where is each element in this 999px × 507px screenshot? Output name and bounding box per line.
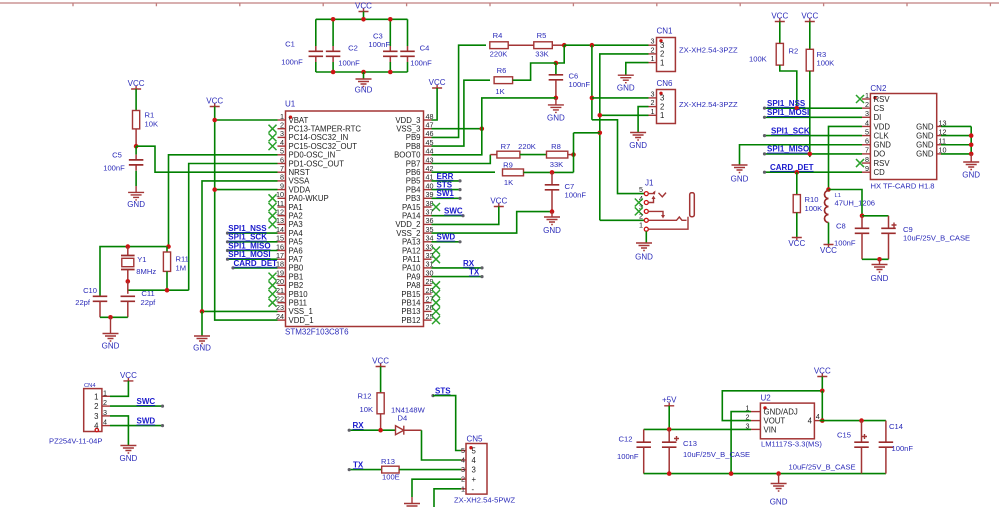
- svg-text:CN1: CN1: [657, 27, 674, 36]
- connector CN5: [454, 435, 516, 505]
- U1 pin 32 PA11: [403, 251, 440, 264]
- wire crystal gnd rail: [100, 315, 128, 320]
- svg-text:33K: 33K: [535, 50, 549, 59]
- svg-text:1: 1: [461, 484, 465, 493]
- wire VSS_2 to C7 ground node: [432, 212, 553, 234]
- J1 pin 5: [639, 185, 648, 196]
- svg-text:VDD_1: VDD_1: [289, 316, 314, 325]
- capacitor C3: [368, 19, 397, 72]
- svg-text:Y1: Y1: [137, 255, 146, 264]
- svg-text:PB3: PB3: [406, 194, 421, 203]
- svg-text:VIN: VIN: [764, 425, 777, 434]
- svg-text:SPI1_MOSI: SPI1_MOSI: [767, 108, 809, 117]
- svg-text:10uF/25V_B_CASE: 10uF/25V_B_CASE: [683, 450, 750, 459]
- svg-text:DO: DO: [874, 150, 886, 159]
- svg-text:RSV: RSV: [874, 159, 891, 168]
- svg-text:C12: C12: [619, 435, 633, 444]
- svg-text:21: 21: [276, 286, 284, 295]
- wire PB9 to R4: [432, 45, 487, 137]
- power net +5V: [662, 396, 677, 432]
- resistor R12: [358, 392, 385, 431]
- svg-text:C4: C4: [420, 44, 430, 53]
- svg-text:PA1: PA1: [289, 203, 303, 212]
- U1 pin 4 PC15-OSC32_OUT: [269, 138, 358, 151]
- svg-text:CARD_DET: CARD_DET: [770, 163, 814, 172]
- svg-text:PB10: PB10: [289, 290, 309, 299]
- svg-text:U1: U1: [285, 100, 296, 109]
- svg-text:SWC: SWC: [137, 397, 156, 406]
- svg-text:VCC: VCC: [206, 97, 223, 106]
- power net VCC (R12): [372, 357, 389, 393]
- node C7 bottom: [550, 209, 555, 214]
- U1 pin 47 VSS_3: [396, 121, 433, 134]
- svg-text:VCC: VCC: [429, 78, 446, 87]
- svg-text:3: 3: [651, 37, 655, 46]
- wire net SPI1_NSS: [763, 99, 862, 111]
- U1 pin 17 PA7: [276, 251, 303, 264]
- svg-text:GND/ADJ: GND/ADJ: [764, 408, 798, 417]
- wire net SPI1_MISO (U1 pin 16): [226, 241, 278, 252]
- svg-text:PA13: PA13: [402, 238, 421, 247]
- svg-text:PB14: PB14: [401, 299, 421, 308]
- svg-text:CN6: CN6: [657, 79, 674, 88]
- ground GND (J1): [635, 231, 653, 261]
- svg-text:C10: C10: [83, 286, 97, 295]
- CN2 pin 3 DI: [862, 109, 881, 122]
- node R5/C6/CN1: [554, 43, 567, 65]
- svg-text:SPI1_NSS: SPI1_NSS: [767, 99, 806, 108]
- wire CN1 pin1 to gnd: [626, 63, 649, 76]
- U1 pin 18 PB0: [276, 260, 304, 273]
- power net VCC (VDD_2): [432, 197, 508, 225]
- svg-text:100nF: 100nF: [338, 59, 360, 68]
- CN4 pin 2: [94, 398, 110, 411]
- op-amp CN2 (TF card socket body): [870, 84, 936, 191]
- resistor R1: [133, 111, 159, 147]
- CN2 pin 11 GND: [916, 137, 971, 150]
- CN5 pin 5: [461, 446, 477, 456]
- svg-text:4: 4: [103, 418, 107, 427]
- capacitor C8: [834, 216, 869, 259]
- resistor R13: [381, 457, 461, 482]
- wire crystal top rail: [100, 244, 171, 296]
- svg-text:VCC: VCC: [355, 2, 372, 11]
- svg-text:1: 1: [94, 392, 98, 401]
- power net VCC (CN4): [110, 371, 137, 396]
- resistor R8: [547, 142, 574, 169]
- svg-text:13: 13: [276, 216, 284, 225]
- wire net to J1.2: [600, 219, 645, 221]
- U1 pin 46 PB9: [406, 129, 434, 142]
- svg-text:1M: 1M: [176, 264, 187, 273]
- U1 pin 13 PA3: [269, 216, 303, 229]
- resistor R11: [163, 247, 188, 291]
- svg-text:VDD_3: VDD_3: [395, 116, 420, 125]
- svg-text:3: 3: [103, 408, 107, 417]
- wire OSC_IN to crystal: [169, 155, 278, 247]
- svg-text:R7: R7: [501, 142, 511, 151]
- U2 pin 3 VIN: [746, 421, 777, 434]
- svg-text:GND: GND: [127, 200, 145, 209]
- svg-text:VSS_3: VSS_3: [396, 125, 420, 134]
- CN2 pin 2 CS: [862, 100, 884, 113]
- svg-text:4: 4: [94, 422, 99, 431]
- wire net STS (U1 pin 40): [432, 181, 462, 192]
- ground GND (CN1): [617, 75, 635, 92]
- svg-text:20: 20: [276, 277, 284, 286]
- svg-text:GND: GND: [543, 226, 561, 235]
- svg-text:PZ254V-11-04P: PZ254V-11-04P: [49, 437, 102, 446]
- svg-text:1K: 1K: [504, 178, 513, 187]
- svg-text:J1: J1: [645, 178, 654, 187]
- wire C6 to VSS_3: [482, 98, 556, 129]
- svg-text:3: 3: [865, 109, 869, 118]
- wire net CARD_DET (U1 pin 18): [231, 259, 277, 270]
- svg-text:4: 4: [461, 456, 465, 465]
- node Y1/C11: [126, 279, 131, 284]
- svg-text:R13: R13: [381, 457, 395, 466]
- wire net SPI1_MISO: [763, 145, 862, 157]
- wire crystal bottom rail: [128, 288, 189, 293]
- svg-text:VSSA: VSSA: [289, 177, 311, 186]
- U1 pin 37 PA14: [402, 208, 434, 221]
- svg-text:1: 1: [651, 107, 655, 116]
- U1 pin 48 VDD_3: [395, 112, 433, 125]
- svg-text:220K: 220K: [490, 50, 508, 59]
- svg-text:2: 2: [660, 102, 664, 111]
- resistor R5: [534, 31, 564, 58]
- capacitor C5: [103, 146, 143, 186]
- wire OSC_OUT to crystal: [189, 164, 278, 291]
- svg-text:100nF: 100nF: [410, 59, 432, 68]
- svg-text:PB1: PB1: [289, 272, 304, 281]
- svg-text:2: 2: [651, 45, 655, 54]
- svg-text:5: 5: [472, 447, 477, 456]
- CN2 pin 5 CLK: [862, 127, 889, 140]
- svg-text:PA14: PA14: [402, 212, 421, 221]
- ground GND (C8/C9): [871, 259, 889, 283]
- svg-text:PC14-OSC32_IN: PC14-OSC32_IN: [289, 133, 349, 142]
- wire C8/C9 gnd rail: [862, 257, 889, 262]
- U1 pin 3 PC14-OSC32_IN: [269, 129, 349, 142]
- svg-text:PA0-WKUP: PA0-WKUP: [289, 194, 329, 203]
- op-amp U1 (MCU STM32F103C8T6 body): [285, 100, 424, 337]
- wire NRST net: [136, 146, 277, 172]
- wire net SWD (CN4): [110, 417, 164, 428]
- svg-text:R4: R4: [493, 31, 503, 40]
- U1 pin 25 PB12: [401, 312, 440, 325]
- U1 pin 38 PA15: [402, 199, 440, 212]
- svg-text:2: 2: [280, 121, 284, 130]
- CN5 pin 3: [461, 465, 476, 475]
- resistor R7: [490, 142, 536, 158]
- capacitor C4: [400, 19, 432, 72]
- svg-text:SPI1_SCK: SPI1_SCK: [228, 233, 267, 242]
- svg-text:U2: U2: [761, 394, 772, 403]
- U1 pin 7 NRST: [278, 164, 310, 177]
- resistor R2: [749, 43, 798, 65]
- wire PB7 to R7: [432, 155, 491, 164]
- U1 pin 22 PB11: [269, 295, 308, 308]
- U2 pin 4: [808, 412, 820, 426]
- svg-text:HX TF-CARD H1.8: HX TF-CARD H1.8: [871, 182, 935, 191]
- svg-text:1: 1: [865, 91, 869, 100]
- svg-text:VDDA: VDDA: [289, 185, 311, 194]
- U1 pin 11 PA1: [269, 199, 303, 212]
- capacitor C7: [545, 172, 587, 211]
- crystal Y1: [121, 247, 156, 282]
- wire R6 to C6 node: [513, 63, 556, 80]
- svg-text:RX: RX: [463, 259, 475, 268]
- wire net SPI1_MOSI: [763, 108, 862, 119]
- svg-text:R10: R10: [805, 195, 819, 204]
- J1 jack contacts: [648, 191, 694, 230]
- svg-text:+: +: [472, 475, 477, 484]
- svg-text:12: 12: [276, 208, 284, 217]
- svg-text:GND: GND: [193, 344, 211, 353]
- svg-text:7: 7: [280, 164, 284, 173]
- svg-text:100K: 100K: [749, 55, 767, 64]
- CN2 pin 12 GND: [916, 127, 971, 140]
- svg-text:100E: 100E: [382, 473, 400, 482]
- svg-text:5: 5: [461, 446, 465, 455]
- svg-text:PA5: PA5: [289, 238, 304, 247]
- power net VCC (U2): [814, 367, 831, 391]
- wire VOUT to VCC: [722, 389, 886, 423]
- capacitor C2: [326, 19, 360, 72]
- svg-text:3: 3: [280, 129, 284, 138]
- svg-text:VCC: VCC: [372, 357, 389, 366]
- svg-text:PA7: PA7: [289, 255, 303, 264]
- CN4 pin 4: [94, 418, 110, 431]
- wire net TX (bottom): [348, 460, 382, 471]
- svg-text:R1: R1: [145, 111, 155, 120]
- svg-text:R11: R11: [176, 255, 189, 264]
- U1 pin 19 PB1: [269, 268, 304, 281]
- svg-text:SPI1_SCK: SPI1_SCK: [771, 126, 810, 135]
- wire R4-R5: [508, 44, 534, 46]
- wire CN6 pin1 node: [598, 113, 649, 118]
- svg-text:10: 10: [276, 190, 284, 199]
- svg-text:GND: GND: [916, 141, 934, 150]
- wire net SW1 (U1 pin 39): [432, 189, 462, 200]
- svg-text:DI: DI: [874, 113, 882, 122]
- svg-text:33K: 33K: [550, 160, 564, 169]
- capacitor C15 (polarized): [789, 421, 869, 474]
- svg-text:SWC: SWC: [444, 207, 463, 216]
- svg-text:220K: 220K: [518, 142, 536, 151]
- U1 pin 35 VSS_2: [396, 225, 433, 238]
- svg-text:PB12: PB12: [401, 316, 420, 325]
- resistor R3: [806, 49, 834, 71]
- CN6 pin 1: [649, 107, 665, 120]
- J1 pin 4: [635, 194, 649, 207]
- U1 pin 12 PA2: [269, 208, 303, 221]
- svg-text:STS: STS: [437, 181, 453, 190]
- ground GND (U2 rail): [770, 474, 788, 507]
- svg-text:GND: GND: [770, 498, 788, 507]
- wire GND/ADJ down: [731, 412, 751, 474]
- capacitor C1: [281, 19, 323, 72]
- svg-text:100nF: 100nF: [368, 40, 390, 49]
- wire D4 to CN5 pin4: [422, 430, 462, 460]
- svg-text:+5V: +5V: [662, 396, 677, 405]
- svg-text:9: 9: [865, 164, 869, 173]
- svg-text:PB0: PB0: [289, 264, 304, 273]
- U1 pin 1 VBAT: [278, 112, 309, 125]
- svg-text:VDD_2: VDD_2: [395, 220, 420, 229]
- svg-text:2: 2: [94, 402, 98, 411]
- svg-text:STS: STS: [435, 386, 451, 395]
- U1 pin 26 PB13: [401, 303, 440, 316]
- wire VBAT/VDDA/VDD_1 vertical: [212, 118, 277, 320]
- svg-text:PB8: PB8: [406, 142, 421, 151]
- svg-text:ZX-XH2.54-5PWZ: ZX-XH2.54-5PWZ: [454, 496, 516, 505]
- svg-text:VCC: VCC: [490, 197, 507, 206]
- ground GND (CN2 pin6): [731, 165, 749, 184]
- wire net TX (U1 pin 30): [432, 268, 484, 279]
- ground GND (U1): [193, 311, 211, 352]
- J1 pin 3: [635, 203, 649, 216]
- U1 pin 2 PC13-TAMPER-RTC: [269, 121, 362, 134]
- svg-text:22pf: 22pf: [75, 298, 91, 307]
- svg-text:PB11: PB11: [289, 299, 308, 308]
- capacitor C10: [75, 286, 107, 317]
- svg-text:CN5: CN5: [467, 435, 484, 444]
- svg-text:1: 1: [280, 112, 284, 121]
- wire net SPI1_MOSI (U1 pin 17): [226, 250, 278, 261]
- svg-text:100nF: 100nF: [569, 80, 591, 89]
- svg-text:4: 4: [808, 417, 813, 426]
- U1 pin 42 PB6: [406, 164, 434, 177]
- U1 pin 39 PB3: [406, 190, 434, 203]
- svg-text:GND: GND: [355, 86, 373, 95]
- svg-text:100nF: 100nF: [892, 444, 914, 453]
- svg-text:5: 5: [639, 185, 643, 194]
- svg-text:C15: C15: [837, 430, 851, 439]
- node R8 right: [571, 152, 576, 157]
- svg-text:VDD: VDD: [874, 122, 891, 131]
- svg-text:ZX-XH2.54-3PZZ: ZX-XH2.54-3PZZ: [679, 46, 738, 55]
- svg-text:VSS_2: VSS_2: [396, 229, 420, 238]
- svg-text:3: 3: [660, 94, 664, 103]
- svg-text:PC13-TAMPER-RTC: PC13-TAMPER-RTC: [289, 125, 362, 134]
- U1 pin 24 VDD_1: [276, 312, 314, 325]
- U1 pin 27 PB14: [401, 295, 440, 308]
- svg-text:3: 3: [461, 465, 465, 474]
- svg-text:CLK: CLK: [874, 131, 890, 140]
- svg-text:2: 2: [865, 100, 869, 109]
- U1 pin 5 PD0-OSC_IN: [278, 147, 336, 160]
- U1 pin 23 VSS_1: [276, 303, 313, 316]
- CN1 pin 2: [649, 45, 665, 58]
- ground GND (C5): [127, 186, 145, 209]
- svg-text:19: 19: [276, 268, 284, 277]
- capacitor C9 (polarized): [881, 216, 970, 259]
- U1 pin 30 PA9: [406, 268, 433, 281]
- svg-text:10uF/25V_B_CASE: 10uF/25V_B_CASE: [903, 234, 970, 243]
- U1 pin 41 PB5: [406, 173, 434, 186]
- capacitor C13 (polarized): [662, 429, 750, 473]
- ground GND (crystal): [102, 317, 120, 350]
- CN4 pin 1: [94, 388, 110, 401]
- wire net SWC (U1 pin 37): [432, 207, 465, 218]
- U2 pin 2 VOUT: [746, 413, 786, 426]
- CN2 pin 8 RSV: [856, 155, 890, 168]
- wire net CARD_DET: [763, 163, 862, 175]
- svg-text:100nF: 100nF: [617, 452, 639, 461]
- wire R3 to MISO: [809, 71, 811, 157]
- svg-text:CN4: CN4: [84, 383, 96, 389]
- svg-text:ZX-XH2.54-3PZZ: ZX-XH2.54-3PZZ: [679, 100, 738, 109]
- svg-text:BOOT0: BOOT0: [394, 151, 421, 160]
- svg-text:6: 6: [280, 155, 284, 164]
- svg-text:100K: 100K: [805, 204, 823, 213]
- diode D4: [391, 405, 426, 434]
- ground GND (CN5): [404, 497, 420, 507]
- power net VCC (L1, inverted): [820, 223, 837, 256]
- svg-text:VBAT: VBAT: [289, 116, 309, 125]
- node R1/C5/NRST: [134, 144, 139, 149]
- svg-text:8: 8: [280, 173, 284, 182]
- svg-text:SW1: SW1: [437, 189, 455, 198]
- svg-text:C8: C8: [836, 222, 846, 231]
- wire audio net branch R8: [574, 131, 603, 136]
- U2 pin 1 GND/ADJ: [746, 404, 798, 417]
- wire R9 to C7 node: [524, 133, 574, 175]
- ground GND (CN2 right): [962, 154, 980, 180]
- CN1 pin 3: [649, 37, 665, 50]
- svg-text:CN2: CN2: [870, 84, 887, 93]
- wire CN2 gnd bus: [969, 126, 974, 156]
- svg-text:CD: CD: [874, 168, 886, 177]
- wire R2 to NSS: [780, 65, 797, 108]
- svg-text:100nF: 100nF: [565, 191, 587, 200]
- svg-text:10K: 10K: [145, 120, 159, 129]
- svg-text:8MHz: 8MHz: [136, 267, 156, 276]
- svg-text:C13: C13: [683, 439, 697, 448]
- svg-text:VCC: VCC: [788, 239, 805, 248]
- svg-text:PA3: PA3: [289, 220, 303, 229]
- svg-text:2: 2: [461, 475, 465, 484]
- svg-text:GND: GND: [635, 253, 653, 262]
- svg-text:PA8: PA8: [406, 281, 420, 290]
- U1 pin 16 PA6: [276, 242, 303, 255]
- U1 pin 31 PA10: [402, 260, 434, 273]
- wire net SPI1_SCK (U1 pin 15): [226, 233, 278, 244]
- svg-text:C1: C1: [285, 40, 295, 49]
- U1 pin 44 BOOT0: [394, 147, 433, 160]
- svg-text:CARD_DET: CARD_DET: [234, 259, 278, 268]
- wire CN6 pin3: [592, 97, 649, 99]
- svg-text:2: 2: [103, 398, 107, 407]
- U1 pin 33 PA12: [402, 242, 440, 255]
- svg-text:R5: R5: [537, 31, 547, 40]
- svg-text:PA15: PA15: [402, 203, 421, 212]
- svg-text:GND: GND: [916, 150, 934, 159]
- svg-text:PB15: PB15: [401, 290, 421, 299]
- svg-text:CS: CS: [874, 104, 885, 113]
- svg-text:1: 1: [660, 111, 664, 120]
- wire VSSA/VSS_1 to ground: [200, 181, 278, 314]
- resistor R9: [503, 161, 524, 188]
- U1 pin 10 PA0-WKUP: [269, 190, 329, 203]
- svg-text:5: 5: [865, 127, 869, 136]
- svg-text:1K: 1K: [495, 87, 504, 96]
- U1 pin 34 PA13: [402, 234, 434, 247]
- svg-text:PB9: PB9: [406, 133, 421, 142]
- inductor L1: [825, 187, 876, 222]
